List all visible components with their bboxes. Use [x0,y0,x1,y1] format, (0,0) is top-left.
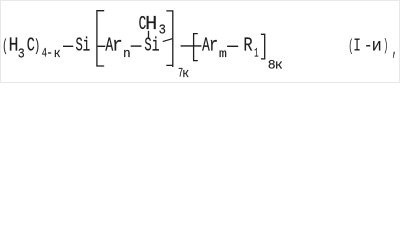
svg-text:n: n [123,46,131,61]
svg-text:3: 3 [18,47,25,62]
svg-text:i: i [83,34,91,56]
svg-text:I: I [353,35,361,56]
bond (H3C)4-к to Si [63,45,73,47]
svg-text:m: m [219,47,227,61]
svg-text:): ) [383,36,388,55]
svg-text:-: - [46,46,53,61]
svg-text:(: ( [2,37,7,56]
bracket 2 left [194,34,198,61]
svg-text:к: к [182,66,189,81]
bond CH3 to Si vertical [148,31,150,38]
bond bracket 1 left to Ar [98,45,106,47]
bracket 2 right [261,34,265,59]
page background [0,0,400,83]
svg-text:r: r [209,36,218,57]
svg-text:r: r [112,35,123,57]
bond bracket 1 to Ar m crossing bracket 2 left [181,45,202,47]
svg-text:H: H [145,14,157,35]
bond Ar n to Si [131,45,142,47]
svg-text:к: к [275,58,283,72]
faint page edge border [1,1,400,83]
svg-text:H: H [9,35,19,56]
svg-text:к: к [54,47,61,62]
svg-text:1: 1 [254,47,258,62]
bracket 1 left [97,11,104,66]
svg-text:S: S [76,35,83,56]
bond Si to bracket 1 right slanted [163,39,173,42]
svg-text:3: 3 [159,22,166,38]
svg-text:и: и [372,37,382,56]
svg-text:S: S [144,35,151,56]
svg-text:,: , [392,38,398,61]
svg-text:): ) [34,37,40,56]
svg-text:R: R [243,36,252,57]
bond Ar m to R1 [227,45,238,47]
bracket 1 right [166,11,173,67]
